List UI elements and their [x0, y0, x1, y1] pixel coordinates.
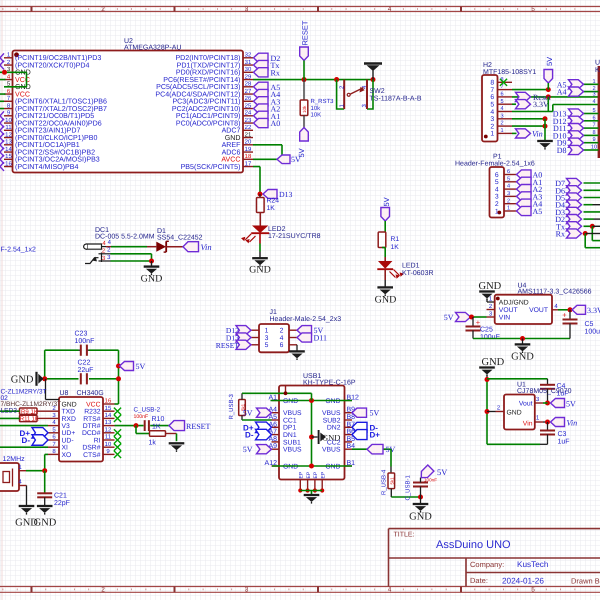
- svg-text:5V: 5V: [243, 409, 253, 418]
- svg-text:15: 15: [5, 153, 12, 160]
- svg-text:D+: D+: [370, 431, 381, 440]
- svg-text:A4: A4: [557, 88, 567, 97]
- svg-text:RESET: RESET: [186, 422, 211, 431]
- svg-text:Vin: Vin: [201, 242, 212, 252]
- svg-text:D11: D11: [314, 334, 327, 343]
- svg-text:12: 12: [105, 426, 112, 433]
- svg-text:U8: U8: [60, 390, 69, 397]
- svg-text:SS54_C22452: SS54_C22452: [157, 235, 203, 242]
- svg-text:GND: GND: [249, 265, 271, 276]
- svg-text:AssDuino UNO: AssDuino UNO: [436, 539, 511, 551]
- svg-text:TS-1187A-B-A-B: TS-1187A-B-A-B: [370, 96, 422, 103]
- svg-text:4: 4: [490, 109, 494, 116]
- svg-text:13: 13: [5, 139, 12, 146]
- svg-text:GND: GND: [283, 463, 298, 470]
- svg-text:D13: D13: [279, 190, 293, 199]
- svg-text:XO: XO: [62, 452, 72, 459]
- svg-text:RESET: RESET: [301, 20, 310, 45]
- svg-text:10k: 10k: [302, 105, 307, 113]
- svg-text:7: 7: [490, 87, 494, 94]
- svg-text:3: 3: [592, 91, 595, 97]
- svg-text:Rx: Rx: [271, 68, 280, 77]
- svg-text:1K: 1K: [391, 244, 400, 251]
- svg-text:5: 5: [507, 176, 510, 182]
- svg-text:1K: 1K: [31, 408, 38, 415]
- svg-text:6: 6: [490, 94, 494, 101]
- svg-text:R1: R1: [391, 236, 400, 243]
- svg-text:KusTech: KusTech: [517, 560, 549, 569]
- svg-text:Rx: Rx: [556, 230, 565, 239]
- svg-text:ADJ/GND: ADJ/GND: [499, 300, 529, 307]
- svg-text:3: 3: [245, 6, 249, 13]
- svg-text:2: 2: [507, 198, 510, 204]
- svg-text:5V: 5V: [444, 313, 454, 322]
- svg-text:1K: 1K: [32, 416, 39, 423]
- svg-text:C5: C5: [585, 321, 594, 328]
- svg-text:RESET: RESET: [216, 341, 240, 350]
- svg-text:21: 21: [245, 131, 252, 138]
- svg-text:2024-01-26: 2024-01-26: [502, 577, 544, 586]
- svg-text:3.3V: 3.3V: [587, 306, 600, 315]
- svg-text:LED3: LED3: [1, 408, 18, 415]
- svg-text:Vin: Vin: [567, 418, 578, 427]
- svg-text:Header-Male-2.54_2x3: Header-Male-2.54_2x3: [270, 315, 342, 323]
- svg-text:5V: 5V: [243, 445, 253, 454]
- svg-text:C23: C23: [75, 330, 88, 337]
- svg-text:Vin: Vin: [523, 420, 533, 427]
- svg-text:R11: R11: [20, 416, 31, 423]
- svg-text:1: 1: [592, 79, 595, 85]
- svg-text:11: 11: [105, 434, 112, 441]
- svg-text:100nF: 100nF: [134, 414, 149, 420]
- svg-text:RXD: RXD: [62, 416, 76, 423]
- svg-text:10: 10: [105, 441, 112, 448]
- svg-text:4: 4: [500, 106, 503, 112]
- svg-text:J1: J1: [270, 309, 278, 316]
- svg-text:12MHz: 12MHz: [3, 456, 26, 463]
- svg-text:+: +: [562, 311, 567, 320]
- svg-text:16: 16: [5, 160, 12, 167]
- svg-text:4: 4: [388, 6, 392, 13]
- svg-text:27: 27: [245, 88, 252, 95]
- svg-text:13: 13: [105, 419, 112, 426]
- svg-text:DSR#: DSR#: [82, 445, 100, 452]
- svg-text:KT-0603R: KT-0603R: [402, 270, 434, 277]
- svg-text:EP: EP: [299, 471, 305, 478]
- svg-text:10: 10: [5, 117, 12, 124]
- svg-text:11: 11: [5, 124, 12, 131]
- svg-text:3: 3: [507, 191, 510, 197]
- svg-text:VBUS: VBUS: [283, 447, 302, 454]
- svg-text:30: 30: [245, 66, 252, 73]
- svg-text:D8: D8: [557, 146, 567, 155]
- svg-text:EP: EP: [306, 471, 312, 478]
- svg-text:6: 6: [507, 169, 510, 175]
- svg-text:17: 17: [245, 160, 252, 167]
- svg-text:14: 14: [5, 146, 12, 153]
- svg-text:14: 14: [105, 412, 112, 419]
- svg-text:UD+: UD+: [62, 430, 76, 437]
- svg-text:Vin: Vin: [532, 129, 543, 138]
- svg-text:5V: 5V: [437, 467, 448, 477]
- svg-text:8: 8: [592, 130, 595, 136]
- svg-text:23: 23: [245, 117, 252, 124]
- svg-text:V3: V3: [62, 423, 71, 430]
- svg-text:5: 5: [495, 179, 499, 186]
- svg-text:1K: 1K: [267, 205, 276, 212]
- svg-text:8: 8: [490, 80, 494, 87]
- svg-text:RI: RI: [94, 437, 101, 444]
- svg-text:VOUT: VOUT: [529, 307, 548, 314]
- svg-text:GND: GND: [325, 398, 340, 405]
- svg-text:10K: 10K: [311, 111, 322, 118]
- svg-text:(PCINT4/MISO)PB4: (PCINT4/MISO)PB4: [15, 163, 79, 171]
- svg-text:SW2: SW2: [370, 88, 385, 95]
- svg-text:LED1: LED1: [402, 263, 420, 270]
- svg-text:17-21SUYC/TR8: 17-21SUYC/TR8: [268, 232, 321, 240]
- svg-text:22pF: 22pF: [54, 500, 70, 507]
- svg-text:K: K: [595, 67, 600, 74]
- svg-text:DP1: DP1: [283, 425, 296, 432]
- svg-text:C22: C22: [78, 360, 91, 367]
- svg-text:2: 2: [490, 123, 494, 130]
- svg-text:VBUS: VBUS: [283, 410, 302, 417]
- svg-text:DN1: DN1: [283, 432, 297, 439]
- svg-text:MTF185-108SY1: MTF185-108SY1: [483, 69, 536, 76]
- svg-text:1k: 1k: [149, 439, 157, 447]
- svg-text:VBUS: VBUS: [322, 447, 341, 454]
- svg-text:R10: R10: [152, 416, 165, 423]
- svg-text:A0: A0: [271, 119, 281, 128]
- svg-text:R232: R232: [84, 409, 100, 416]
- svg-text:5: 5: [265, 342, 269, 349]
- svg-text:GND: GND: [62, 401, 77, 408]
- svg-text:19: 19: [245, 146, 252, 153]
- svg-text:ATMEGA328P-AU: ATMEGA328P-AU: [124, 44, 181, 51]
- svg-text:R9: R9: [21, 408, 29, 415]
- svg-text:DN2: DN2: [327, 425, 341, 432]
- svg-text:EP: EP: [320, 471, 326, 478]
- svg-text:5V: 5V: [566, 399, 576, 408]
- svg-text:A5: A5: [533, 207, 543, 216]
- svg-text:VCC: VCC: [86, 401, 100, 408]
- svg-text:DCD#: DCD#: [82, 430, 101, 437]
- svg-text:4: 4: [592, 99, 595, 105]
- svg-text:SUB2: SUB2: [323, 417, 341, 424]
- svg-text:1K: 1K: [152, 424, 161, 431]
- svg-text:25: 25: [245, 102, 252, 109]
- svg-text:1: 1: [490, 131, 494, 138]
- svg-text:2: 2: [495, 201, 499, 208]
- svg-text:UD-: UD-: [62, 437, 74, 444]
- svg-text:R_USB-3: R_USB-3: [228, 393, 235, 419]
- svg-text:22uF: 22uF: [78, 367, 94, 374]
- svg-text:GND: GND: [511, 352, 534, 363]
- svg-text:GND: GND: [375, 295, 397, 306]
- svg-text:1: 1: [500, 128, 503, 134]
- svg-text:7: 7: [592, 123, 595, 129]
- svg-text:4: 4: [280, 335, 284, 342]
- svg-text:4: 4: [495, 186, 499, 193]
- svg-text:GND: GND: [11, 375, 34, 386]
- svg-text:5: 5: [500, 99, 503, 105]
- svg-text:5V: 5V: [545, 57, 554, 66]
- svg-text:5: 5: [490, 102, 494, 109]
- svg-text:C_USB-2: C_USB-2: [134, 407, 161, 414]
- svg-text:15: 15: [105, 405, 112, 412]
- svg-text:10: 10: [591, 145, 597, 151]
- svg-text:6: 6: [495, 172, 499, 179]
- svg-text:18: 18: [245, 153, 252, 160]
- svg-text:5V: 5V: [136, 362, 146, 371]
- svg-text:C_USB-1: C_USB-1: [405, 474, 412, 500]
- svg-text:CC1: CC1: [283, 417, 297, 424]
- svg-text:24: 24: [245, 110, 252, 117]
- svg-text:GND: GND: [507, 409, 522, 416]
- svg-text:32: 32: [245, 52, 252, 59]
- svg-text:RTS#: RTS#: [83, 416, 100, 423]
- svg-text:VBUS: VBUS: [322, 410, 341, 417]
- svg-text:12: 12: [5, 131, 12, 138]
- svg-text:5: 5: [592, 108, 595, 114]
- svg-text:C21: C21: [54, 493, 67, 500]
- svg-text:GND: GND: [322, 432, 340, 442]
- svg-text:3: 3: [500, 113, 503, 119]
- svg-text:R_RST3: R_RST3: [311, 98, 335, 105]
- svg-text:2: 2: [500, 121, 503, 127]
- svg-text:3: 3: [490, 116, 494, 123]
- svg-text:SUB1: SUB1: [283, 439, 301, 446]
- svg-text:1uF: 1uF: [558, 439, 570, 446]
- svg-text:Company:: Company:: [470, 560, 504, 569]
- svg-text:20: 20: [245, 139, 252, 146]
- svg-text:GND: GND: [34, 518, 57, 529]
- svg-text:VOUT: VOUT: [499, 307, 518, 314]
- svg-text:GND: GND: [283, 398, 298, 405]
- svg-text:XI: XI: [62, 445, 69, 452]
- svg-text:22: 22: [245, 124, 252, 131]
- svg-text:31: 31: [245, 59, 252, 66]
- svg-text:Drawn B: Drawn B: [571, 577, 600, 586]
- svg-text:VIN: VIN: [499, 315, 510, 322]
- svg-text:GND: GND: [325, 463, 340, 470]
- svg-text:3.3V: 3.3V: [533, 100, 549, 109]
- svg-text:6: 6: [500, 92, 503, 98]
- svg-text:DC-005 5.5-2.0MM: DC-005 5.5-2.0MM: [95, 233, 155, 240]
- svg-text:Header-Female-2.54_1x6: Header-Female-2.54_1x6: [455, 160, 535, 168]
- svg-text:6: 6: [280, 342, 284, 349]
- svg-text:3: 3: [265, 335, 269, 342]
- svg-text:100uF: 100uF: [480, 334, 500, 341]
- svg-text:GND: GND: [409, 512, 432, 523]
- svg-text:10k: 10k: [311, 105, 322, 112]
- svg-text:4: 4: [388, 587, 392, 594]
- svg-text:9: 9: [592, 137, 595, 143]
- svg-text:C25: C25: [480, 327, 493, 334]
- svg-text:29: 29: [245, 73, 252, 80]
- svg-text:16: 16: [105, 398, 112, 405]
- svg-text:R24: R24: [267, 198, 280, 205]
- svg-text:CTS#: CTS#: [83, 452, 101, 459]
- svg-text:Date:: Date:: [470, 576, 488, 585]
- svg-text:5k1: 5k1: [390, 477, 395, 485]
- svg-text:C3: C3: [558, 431, 567, 438]
- svg-text:100uF: 100uF: [585, 329, 600, 336]
- svg-text:2: 2: [280, 328, 284, 335]
- svg-text:P1: P1: [493, 154, 502, 161]
- svg-text:TXD: TXD: [62, 409, 76, 416]
- svg-text:1: 1: [495, 208, 499, 215]
- svg-text:1: 1: [507, 206, 510, 212]
- svg-text:6: 6: [592, 115, 595, 121]
- svg-text:D-: D-: [245, 431, 254, 440]
- svg-text:GND: GND: [141, 274, 163, 285]
- svg-text:4: 4: [507, 184, 510, 190]
- svg-text:DTR#: DTR#: [83, 423, 101, 430]
- svg-text:28: 28: [245, 81, 252, 88]
- svg-text:5V: 5V: [382, 197, 391, 206]
- svg-text:R_USB-4: R_USB-4: [381, 469, 388, 495]
- svg-text:26: 26: [245, 95, 252, 102]
- svg-text:1: 1: [265, 328, 269, 335]
- svg-text:100nF: 100nF: [75, 338, 95, 345]
- svg-text:Vout: Vout: [519, 401, 533, 408]
- svg-text:5V: 5V: [370, 409, 380, 418]
- svg-text:TITLE:: TITLE:: [394, 532, 415, 539]
- svg-text:D-: D-: [22, 436, 31, 445]
- svg-text:F-2.54_1x2: F-2.54_1x2: [1, 247, 37, 254]
- svg-text:U: U: [595, 60, 600, 67]
- svg-text:3: 3: [495, 194, 499, 201]
- svg-text:PB5(SCK/PCINT5): PB5(SCK/PCINT5): [181, 163, 241, 171]
- svg-text:3: 3: [245, 587, 249, 594]
- svg-text:EP: EP: [313, 471, 319, 478]
- svg-text:LED2: LED2: [268, 226, 286, 233]
- svg-text:CH340G: CH340G: [77, 390, 104, 397]
- svg-text:5V: 5V: [297, 148, 306, 157]
